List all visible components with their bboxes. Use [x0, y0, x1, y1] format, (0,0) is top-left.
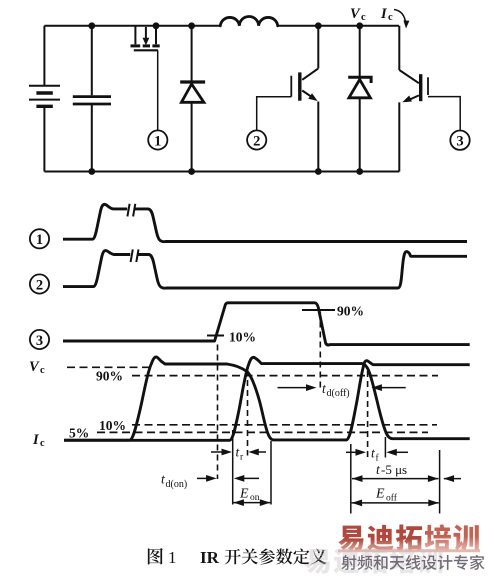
svg-text:c: c — [388, 12, 393, 23]
junction bottom capacitor — [88, 168, 95, 175]
diode D1 — [180, 82, 205, 102]
svg-text:c: c — [40, 438, 45, 449]
extension line t5us right — [439, 450, 441, 514]
break mark waveform 1 — [127, 204, 135, 217]
svg-text:10%: 10% — [99, 418, 126, 433]
IGBT Q2 — [291, 26, 318, 172]
wire diode D1 branch — [191, 26, 193, 172]
marker 90% on gate 3 falling edge — [302, 309, 335, 311]
junction top capacitor — [88, 22, 95, 29]
battery — [29, 86, 60, 107]
svg-text:E: E — [239, 486, 249, 501]
svg-text:on: on — [250, 493, 260, 503]
dimension td(off) — [278, 384, 406, 391]
junction MOSFET drain — [153, 22, 160, 29]
vertical dashed turn-on reference — [217, 345, 219, 480]
dashed level 5% — [97, 431, 428, 433]
arrow Ic direction — [394, 10, 406, 25]
wire capacitor branch — [91, 26, 93, 172]
IGBT Q3 — [399, 26, 428, 172]
extension line tf right — [384, 437, 386, 458]
watermark subtitle — [341, 555, 484, 570]
waveform gate 3 trace — [63, 303, 470, 345]
diode D2 — [348, 77, 371, 98]
node 1 waveform label — [30, 229, 49, 248]
dimension Eoff — [352, 500, 439, 507]
svg-text:I: I — [32, 432, 40, 448]
junction bottom IGBT Q2 — [315, 168, 322, 175]
break mark waveform 2 — [131, 249, 139, 262]
svg-text:I: I — [380, 6, 388, 22]
dashed level Vc 100% — [67, 366, 154, 368]
svg-text:3: 3 — [36, 333, 43, 349]
node 3 waveform label — [30, 330, 49, 349]
svg-text:10%: 10% — [229, 330, 256, 345]
dimension tf — [346, 449, 408, 456]
svg-text:2: 2 — [36, 277, 43, 293]
watermark ghost row — [305, 548, 442, 574]
extension line Eon left — [232, 430, 234, 505]
svg-text:r: r — [240, 453, 244, 463]
node 2 terminal circle — [247, 130, 266, 149]
junction top diode D1 — [188, 22, 195, 29]
junction bottom diode D1 — [188, 168, 195, 175]
svg-text:1: 1 — [154, 133, 161, 149]
svg-text:90%: 90% — [96, 369, 123, 384]
svg-text:d(on): d(on) — [166, 479, 188, 490]
wire bottom rail — [44, 171, 399, 173]
junction top IGBT Q2 — [315, 22, 322, 29]
waveform Ic trace — [64, 357, 470, 440]
dashed level 10% — [132, 424, 437, 426]
svg-text:c: c — [40, 365, 45, 376]
wire top rail — [44, 25, 399, 27]
inductor L1 — [220, 16, 277, 25]
svg-text:d(off): d(off) — [327, 388, 350, 399]
junction bottom diode D2 — [356, 168, 363, 175]
vertical dashed turn-off reference — [319, 312, 321, 389]
svg-text:-5 μs: -5 μs — [381, 462, 407, 477]
svg-text:5%: 5% — [69, 425, 89, 440]
svg-text:1: 1 — [36, 232, 43, 248]
dashed level 90% — [132, 375, 438, 377]
wire battery branch — [43, 26, 45, 172]
extension line Eoff left — [350, 444, 352, 514]
vertical dashed tf left boundary — [367, 371, 369, 458]
svg-text:E: E — [375, 487, 385, 502]
wire gate 1 lead — [157, 50, 159, 130]
svg-text:V: V — [29, 359, 40, 375]
svg-text:IR: IR — [200, 548, 220, 567]
wire gate 3 lead — [428, 97, 460, 131]
wire gate 2 lead — [257, 97, 292, 131]
dimension Eon — [233, 499, 270, 506]
waveform Vc trace — [64, 357, 470, 440]
svg-text:V: V — [350, 6, 361, 22]
waveform gate 1 trace — [63, 204, 467, 241]
caption figure title — [148, 548, 327, 567]
dimension tr — [211, 449, 266, 456]
marker 10% on gate 3 rising edge — [207, 335, 224, 337]
waveform gate 2 trace — [63, 251, 467, 289]
node 2 waveform label — [30, 274, 49, 293]
wire diode D2 branch — [359, 26, 361, 172]
dimension t=5us — [352, 475, 461, 482]
svg-text:off: off — [386, 492, 398, 503]
svg-text:1: 1 — [168, 548, 177, 567]
svg-text:90%: 90% — [337, 304, 364, 319]
node 1 terminal circle — [148, 130, 167, 149]
svg-text:2: 2 — [253, 133, 260, 149]
extension line Eon right — [270, 441, 272, 505]
node 3 terminal circle — [450, 131, 469, 150]
svg-text:3: 3 — [456, 134, 463, 150]
dimension td(on) — [197, 475, 259, 482]
watermark underline swoosh — [338, 549, 480, 552]
junction top diode D2 — [356, 22, 363, 29]
vertical dashed tr right boundary — [247, 370, 249, 456]
MOSFET switch Q1 — [131, 26, 160, 51]
svg-text:c: c — [361, 12, 366, 23]
capacitor — [73, 97, 111, 104]
